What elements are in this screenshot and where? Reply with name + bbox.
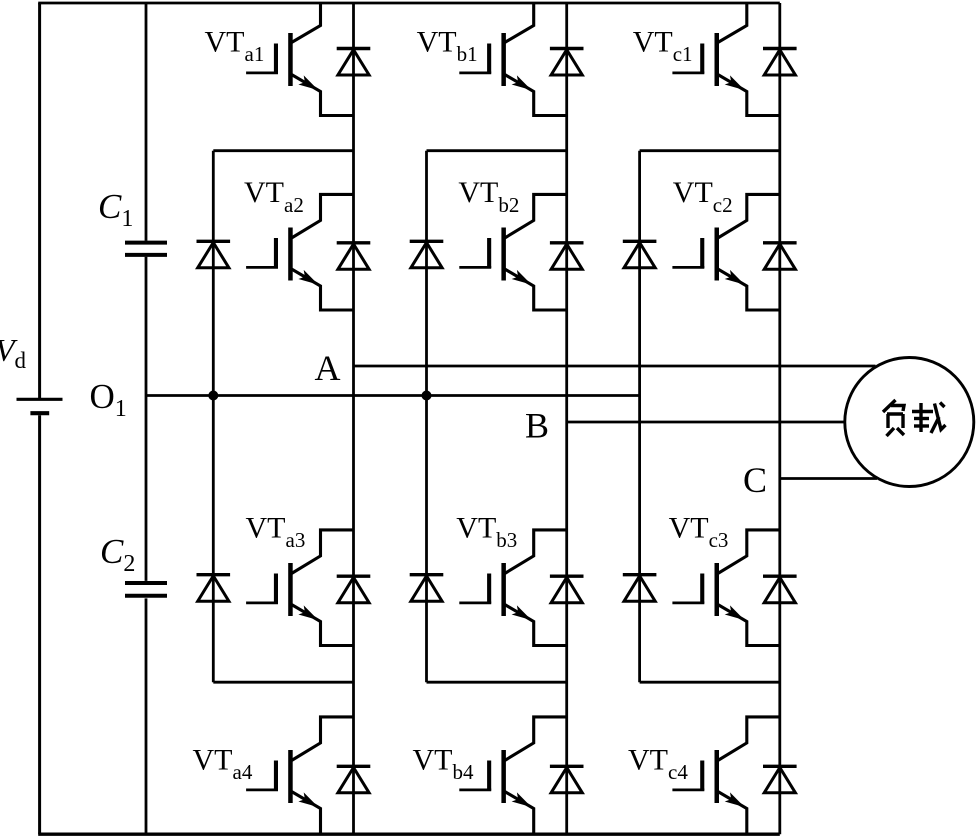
- wire: phase c clamp top link: [640, 149, 780, 152]
- transistor VTc4 (IGBT): [628, 717, 780, 834]
- junction node on clamp leg b: [422, 391, 432, 401]
- diode Da3 (antiparallel): [337, 576, 371, 603]
- transistor VTc2 (IGBT): [672, 176, 779, 310]
- clamp diode VDb2: [410, 575, 444, 602]
- capacitor C2: [125, 583, 167, 596]
- transistor VTb3 (IGBT): [456, 511, 566, 645]
- wire: left source branch lower: [38, 415, 41, 834]
- wire: phase b clamp bottom link: [427, 681, 567, 684]
- svg-text:C: C: [743, 460, 767, 500]
- svg-text:VTc1: VTc1: [633, 26, 693, 67]
- diode Db2 (antiparallel): [550, 243, 584, 269]
- wire: phase b clamp top link: [427, 149, 567, 152]
- clamp diode VDa2: [197, 575, 231, 602]
- wire: phase a clamp bottom link: [213, 681, 353, 684]
- svg-text:O1: O1: [90, 377, 127, 422]
- wire: phase b main leg rail: [565, 3, 568, 834]
- transistor VTa2 (IGBT): [244, 176, 354, 310]
- wire: phase c main leg rail: [778, 3, 781, 834]
- diode Db4 (antiparallel): [550, 766, 584, 793]
- transistor VTa1 (IGBT): [205, 3, 354, 116]
- battery Vd (DC source): [17, 399, 63, 413]
- wire: output B: [567, 421, 845, 424]
- transistor VTb2 (IGBT): [458, 176, 566, 310]
- clamp diode VDc2: [623, 575, 657, 602]
- wire: output A: [354, 365, 876, 368]
- junction node on clamp leg a: [208, 391, 218, 401]
- clamp diode VDa1: [197, 241, 231, 267]
- svg-text:VTa2: VTa2: [244, 176, 304, 217]
- wire: output C: [780, 477, 877, 480]
- transistor VTb4 (IGBT): [413, 717, 567, 834]
- wire: neutral O1 bus: [146, 394, 640, 397]
- wire: left source branch upper: [38, 3, 41, 399]
- svg-text:VTa1: VTa1: [205, 26, 265, 67]
- wire: phase a main leg rail: [352, 3, 355, 834]
- svg-text:C2: C2: [100, 532, 135, 577]
- diode Dc3 (antiparallel): [763, 576, 797, 603]
- svg-text:VTb3: VTb3: [456, 511, 517, 552]
- wire: bottom DC- rail: [38, 833, 780, 836]
- diode Dc1 (antiparallel): [763, 49, 797, 76]
- diode Db1 (antiparallel): [550, 49, 584, 76]
- diode Db3 (antiparallel): [550, 576, 584, 603]
- svg-text:VTc3: VTc3: [669, 511, 729, 552]
- svg-text:Vd: Vd: [0, 332, 27, 373]
- load circle: [845, 358, 974, 487]
- wire: capacitor branch middle segment: [145, 257, 148, 581]
- transistor VTb1 (IGBT): [417, 3, 567, 116]
- svg-text:VTa4: VTa4: [193, 744, 253, 785]
- svg-text:B: B: [525, 406, 549, 446]
- wire: capacitor branch top segment: [145, 3, 148, 241]
- transistor VTa4 (IGBT): [193, 717, 354, 834]
- clamp diode VDb1: [410, 241, 444, 267]
- diode Dc2 (antiparallel): [763, 243, 797, 269]
- diode Da2 (antiparallel): [337, 243, 371, 269]
- clamp diode VDc1: [623, 241, 657, 267]
- wire: capacitor branch bottom segment: [145, 598, 148, 834]
- diode Da4 (antiparallel): [337, 766, 371, 793]
- label 负载 (load): [883, 400, 946, 436]
- wire: phase c clamp bottom link: [640, 681, 780, 684]
- svg-text:VTc2: VTc2: [673, 176, 733, 217]
- svg-text:C1: C1: [98, 187, 133, 232]
- wire: phase c clamp branch vertical: [638, 151, 641, 683]
- wire: top DC+ rail: [38, 2, 780, 5]
- svg-text:VTb2: VTb2: [458, 176, 519, 217]
- svg-text:VTb4: VTb4: [413, 744, 475, 785]
- wire: phase a clamp branch vertical: [212, 151, 215, 683]
- capacitor C1: [125, 243, 167, 255]
- wire: phase a clamp top link: [213, 149, 353, 152]
- diode Dc4 (antiparallel): [763, 766, 797, 793]
- svg-text:VTb1: VTb1: [417, 26, 478, 67]
- svg-text:VTa3: VTa3: [246, 511, 306, 552]
- wire: phase b clamp branch vertical: [425, 151, 428, 683]
- transistor VTa3 (IGBT): [246, 511, 354, 645]
- svg-text:VTc4: VTc4: [628, 744, 688, 785]
- transistor VTc1 (IGBT): [633, 3, 780, 116]
- svg-text:A: A: [315, 348, 341, 388]
- transistor VTc3 (IGBT): [669, 511, 780, 645]
- diode Da1 (antiparallel): [337, 49, 371, 76]
